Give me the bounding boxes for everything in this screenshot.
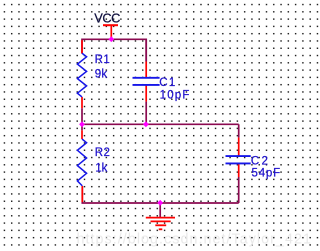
junction at left middle node [79,121,85,127]
wire: middle rail (node between R1/C1 and R2/C2) [82,123,239,125]
wire: bottom rail (ground net) [82,187,238,204]
wire: C1 red bottom lead [145,85,147,102]
label R2 [95,147,110,159]
svg-text:1k: 1k [95,162,107,174]
svg-text:54pF: 54pF [252,168,281,180]
wire: right branch maroon upper segment [238,124,240,137]
wire: right branch maroon lower segment [238,177,240,203]
capacitor C1 [133,78,160,85]
wire: C2 red bottom lead [238,164,240,178]
ground [146,203,175,229]
svg-text:R1: R1 [95,54,110,66]
wire: top rail (VCC net) [82,39,146,61]
svg-text:C1: C1 [159,77,175,89]
resistor R2 [77,139,86,186]
label C2 [251,155,268,167]
power symbol VCC [103,25,118,38]
junction at ground node [157,200,163,206]
wire: C2 red top lead [238,138,240,156]
junction at C1 middle node [143,121,149,127]
svg-text:https://blog.csdn.net/Taylor_4: https://blog.csdn.net/Taylor_421 [77,232,312,248]
wire: maroon segment through left middle junction [81,108,83,130]
svg-text:VCC: VCC [94,11,120,26]
wire: red lead above R2 [81,130,83,139]
svg-text:10pF: 10pF [160,90,190,102]
junction on VCC rail [108,36,114,42]
capacitor C2 [226,156,251,163]
wire: C1 red top lead [145,62,147,78]
wire: C1 branch maroon lower segment [145,102,147,125]
value 54pF [252,168,281,180]
wire: red lead below R1 [81,97,83,108]
wire: left vertical red segment above R1 [81,40,83,53]
node label VCC [94,11,120,26]
value 9k [95,68,108,80]
wire: C1 branch maroon upper segment [145,39,147,61]
value 1k [95,162,107,174]
wire: red lead below R2 [81,186,83,202]
value 10pF [160,90,190,102]
svg-text:9k: 9k [95,68,108,80]
label C1 [159,77,175,89]
watermark text [77,232,312,248]
resistor R1 [77,53,86,97]
label R1 [95,54,110,66]
svg-text:R2: R2 [95,147,110,159]
